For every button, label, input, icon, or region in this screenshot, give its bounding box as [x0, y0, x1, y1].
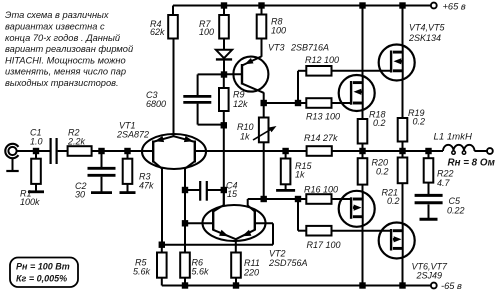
svg-text:VT3: VT3 — [268, 42, 285, 52]
svg-text:100: 100 — [271, 25, 286, 35]
svg-text:1k: 1k — [240, 131, 250, 141]
svg-text:HITACHI. Мощность можно: HITACHI. Мощность можно — [5, 55, 126, 65]
svg-text:100k: 100k — [20, 197, 40, 207]
svg-text:вариант реализован фирмой: вариант реализован фирмой — [5, 44, 133, 54]
svg-text:100: 100 — [199, 27, 214, 37]
svg-text:C5: C5 — [449, 196, 461, 206]
svg-text:R14 27k: R14 27k — [304, 133, 338, 143]
svg-text:2SD756A: 2SD756A — [268, 258, 308, 268]
svg-text:1.0: 1.0 — [30, 136, 43, 146]
svg-text:+65 в: +65 в — [443, 1, 466, 11]
svg-text:Rн = 8 Ом: Rн = 8 Ом — [448, 157, 496, 168]
svg-text:R9: R9 — [233, 89, 245, 99]
svg-text:2SA872: 2SA872 — [116, 130, 149, 140]
svg-text:2SJ49: 2SJ49 — [416, 270, 443, 280]
svg-text:0.22: 0.22 — [447, 205, 465, 215]
svg-text:0.2: 0.2 — [376, 167, 389, 177]
svg-text:-65 в: -65 в — [441, 281, 462, 291]
svg-text:6800: 6800 — [146, 99, 166, 109]
svg-text:R22: R22 — [437, 169, 454, 179]
svg-text:выходных транзисторов.: выходных транзисторов. — [5, 78, 119, 88]
svg-text:R17 100: R17 100 — [307, 240, 341, 250]
svg-text:30: 30 — [75, 190, 85, 200]
svg-text:0.2: 0.2 — [373, 118, 386, 128]
svg-text:VT2: VT2 — [269, 248, 286, 258]
svg-text:VT4,VT5: VT4,VT5 — [409, 22, 446, 32]
svg-text:R12 100: R12 100 — [305, 55, 339, 65]
svg-text:конца 70-х годов . Данный: конца 70-х годов . Данный — [5, 33, 120, 43]
svg-text:5.6k: 5.6k — [133, 266, 151, 276]
svg-text:L1 1mkH: L1 1mkH — [434, 132, 472, 143]
svg-text:62k: 62k — [150, 27, 165, 37]
svg-text:R16 100: R16 100 — [304, 184, 338, 194]
svg-text:47k: 47k — [139, 180, 154, 190]
svg-text:Рн = 100 Вт: Рн = 100 Вт — [16, 261, 70, 271]
svg-text:5.6k: 5.6k — [192, 266, 210, 276]
svg-text:вариантах известна с: вариантах известна с — [5, 22, 105, 32]
svg-text:2SK134: 2SK134 — [408, 33, 441, 43]
svg-text:R13 100: R13 100 — [306, 111, 340, 121]
svg-text:2.2k: 2.2k — [67, 136, 86, 146]
svg-text:12k: 12k — [233, 99, 248, 109]
svg-text:4.7: 4.7 — [437, 178, 451, 188]
svg-text:0.2: 0.2 — [413, 116, 426, 126]
svg-text:Эта схема в различных: Эта схема в различных — [5, 10, 109, 20]
svg-text:изменять, меняя число пар: изменять, меняя число пар — [5, 67, 126, 77]
svg-text:15: 15 — [227, 189, 238, 199]
svg-text:0.2: 0.2 — [387, 196, 400, 206]
svg-text:Кг = 0,005%: Кг = 0,005% — [16, 273, 67, 283]
svg-text:2SB716A: 2SB716A — [290, 42, 329, 52]
svg-text:220: 220 — [243, 267, 259, 277]
svg-text:R10: R10 — [237, 122, 254, 132]
svg-text:1k: 1k — [295, 170, 305, 180]
